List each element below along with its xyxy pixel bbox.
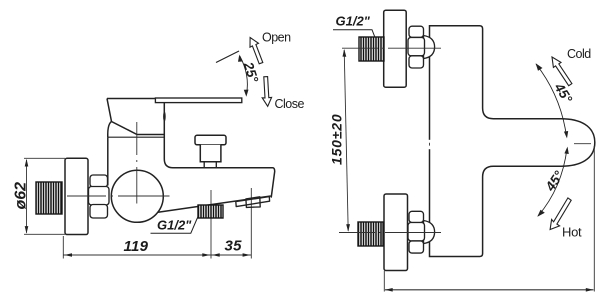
dia62 extension lines [24,157,65,159]
inlet thread block (hatched, left view) [36,182,62,214]
bottom extension line left [383,271,385,292]
svg-text:Open: Open [262,31,291,45]
Hot arrow (outline) [550,198,571,230]
svg-text:119: 119 [124,238,149,255]
45deg swing arc upper [536,64,567,137]
circle vertical centerline [136,122,138,204]
column left edge centre break [428,140,432,149]
top wall flange (right view) [384,10,407,87]
bottom dimension line [385,289,594,291]
bottom extension line right [593,146,595,292]
bottom hex nut [408,211,435,253]
svg-text:G1/2": G1/2" [336,14,371,29]
svg-text:150±20: 150±20 [329,114,345,165]
bottom wall flange (right view) [384,194,408,271]
svg-text:G1/2": G1/2" [157,218,192,233]
barrel left edge [107,137,109,185]
barrel seam line [108,136,165,138]
diverter knob cap [195,135,226,145]
top hex nut [408,26,435,68]
hex nut (left view) [89,175,110,218]
25 degree arc with arrowheads [240,56,248,94]
aerator insert [246,197,260,208]
handle open-position line [216,51,239,63]
handle lever blade (closed position) [155,98,241,103]
diverter knob stem [204,162,216,168]
top thread block (hatched) [359,37,384,61]
svg-text:Cold: Cold [567,47,591,61]
svg-text:35: 35 [225,238,243,255]
barrel right edge into spout top [164,103,274,198]
handle wedge body [107,99,164,138]
Close arrow (outline) [262,77,271,107]
bottom pipe centreline [339,232,441,234]
spout bottom slanted edge [158,196,271,212]
diverter knob body [200,145,221,162]
hose thread block (hatched) [198,205,223,218]
aerator centre extension line [250,188,252,259]
svg-text:Close: Close [275,97,305,111]
Open arrow (outline) [250,38,263,64]
bump centreline dash [574,143,591,145]
119 dimension line [63,254,211,256]
svg-text:Hot: Hot [562,225,582,240]
119 extension line left [62,236,64,259]
bottom thread block (hatched) [358,222,383,246]
top pipe centreline [342,47,441,49]
Cold arrow (outline) [552,57,572,86]
hose centre extension line [210,190,212,259]
wall flange (left view) [65,158,88,234]
dia62 dimension line [26,160,28,233]
150+-20 dimension line [344,50,348,231]
svg-text:ø62: ø62 [13,182,30,210]
35 dimension line [211,254,251,256]
valve circle [111,170,163,222]
45deg swing arc lower [538,149,567,217]
aerator outer ring [236,197,270,207]
body column with side protrusion [430,26,595,257]
pivot mark [163,111,166,121]
circle horizontal centerline [67,195,170,197]
dome arc left of handle [108,122,112,138]
